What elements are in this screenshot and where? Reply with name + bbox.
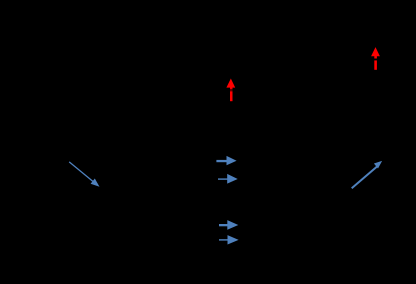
blue right arrow C [219, 220, 238, 230]
blue diagonal arrow left (down-right) [69, 162, 99, 187]
red up arrow 2 [371, 47, 380, 70]
blue right arrow D [219, 235, 239, 244]
blue diagonal arrow right (up-right) [352, 161, 382, 188]
blue right arrow A [216, 156, 236, 165]
red up arrow 1 [226, 79, 235, 102]
blue right arrow B [218, 174, 238, 184]
